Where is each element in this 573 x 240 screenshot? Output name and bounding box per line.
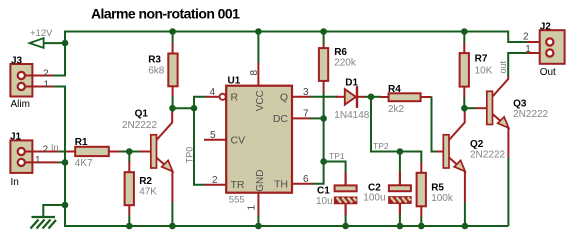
svg-text:2N2222: 2N2222 [513,109,548,120]
svg-text:VCC: VCC [255,90,266,111]
wire D1 cathode to node [365,96,381,98]
svg-text:2k2: 2k2 [388,104,405,115]
wire node to Q3 base [464,107,475,109]
node R3 Q1 collector junction [169,105,176,112]
node C2 TP2 junction [397,148,404,155]
wire pin6 riser [313,162,324,184]
svg-text:Q3: Q3 [513,98,527,109]
svg-text:2: 2 [523,31,529,42]
svg-text:J3: J3 [11,55,23,66]
node D1 R4 TP2 junction [368,94,375,101]
svg-text:2N2222: 2N2222 [470,149,505,160]
wire pin8 to rail [257,32,259,63]
svg-text:Alim: Alim [11,99,30,110]
svg-text:2: 2 [43,68,49,79]
resistor R7 [460,32,469,109]
svg-text:6: 6 [303,174,309,185]
svg-text:GND: GND [255,170,266,192]
wire TP1 to C1 [324,162,346,174]
supply symbol +12V arrow [30,38,44,48]
wire J3 pin2 to +12V [53,75,66,77]
svg-text:R7: R7 [475,54,488,65]
node R1 R2 Q1 junction [126,148,133,155]
wire R3 node to TP0 node [173,107,195,109]
wire TP0 node to pin2 [194,108,205,185]
diode D1 [336,86,366,108]
svg-text:2N2222: 2N2222 [122,120,157,131]
svg-text:7: 7 [303,109,309,120]
svg-text:C1: C1 [317,185,330,196]
svg-text:R4: R4 [388,84,401,95]
transistor Q3 [475,76,509,227]
wire pin1 to rail [257,216,259,227]
svg-text:Alarme non-rotation 001: Alarme non-rotation 001 [91,6,240,22]
svg-text:D1: D1 [345,77,358,88]
node R7 Q2 Q3 junction [461,105,468,112]
node +12V junction [62,40,69,47]
wire pin3 to D1 [310,96,338,98]
wire TP0 node to pin4 [194,97,206,109]
svg-text:CV: CV [231,134,246,146]
resistor R2 [125,152,134,227]
wire J3 pin1 to GND [53,86,66,88]
svg-text:R2: R2 [139,176,152,187]
svg-text:1: 1 [247,205,258,211]
svg-text:10K: 10K [475,66,493,77]
svg-text:R3: R3 [148,54,161,65]
resistor R6 [319,32,328,163]
svg-text:Q1: Q1 [135,109,149,120]
node TP1 junction [320,158,327,165]
svg-text:6k8: 6k8 [148,65,165,76]
svg-text:TP2: TP2 [373,141,389,151]
svg-text:555: 555 [229,195,245,206]
connector J2 [527,30,565,64]
node R3 top rail [169,28,176,35]
node C1 rail [342,223,349,230]
wire bottom GND rail [65,225,508,227]
wire R4 to Q2 base [432,97,438,152]
svg-text:In: In [11,177,19,188]
node pin1 rail [255,223,262,230]
capacitor C2 [389,152,411,227]
svg-text:2: 2 [43,144,49,155]
node pin8 rail [255,28,262,35]
svg-text:Q: Q [280,92,288,104]
wire +12V arrow stub [44,42,66,44]
wire R1 to node [121,151,141,153]
svg-text:Out: Out [540,67,556,78]
wire +12V top rail [65,31,508,33]
connector J3 [10,64,53,97]
resistor R5 [417,162,426,226]
wire pin7 to RC node [310,117,324,119]
node pin7 junction [320,115,327,122]
svg-text:DC: DC [273,113,289,125]
svg-text:TH: TH [274,179,288,191]
wire ground branch [43,205,66,217]
node GND J1 junction [62,159,69,166]
wire J1 pin1 to GND [59,161,65,163]
wire +12V vertical from rail to J3 pin2 [64,31,66,76]
node R6 top rail [320,28,327,35]
svg-text:100k: 100k [431,193,454,204]
wire J2 pin2 from rail [508,31,527,43]
node Q2 emitter rail [462,223,469,230]
svg-text:Q2: Q2 [470,139,484,150]
svg-text:TP1: TP1 [329,151,345,161]
resistor R1 [66,147,121,156]
resistor R3 [168,32,177,109]
svg-text:1: 1 [525,44,531,55]
wire GND vertical left [65,86,508,227]
svg-text:100u: 100u [363,193,385,204]
svg-text:3: 3 [303,87,309,98]
ground [31,217,57,229]
op-amp U1 555 timer [204,62,314,216]
svg-text:8: 8 [249,70,260,76]
node TP0 junction [191,105,198,112]
svg-text:10u: 10u [316,196,333,207]
svg-text:1N4148: 1N4148 [334,110,369,121]
node C2 rail [397,223,404,230]
svg-text:R5: R5 [431,183,444,194]
node Q1 emitter rail [169,223,176,230]
resistor R4 [380,93,432,101]
svg-text:R: R [231,92,239,104]
svg-text:220k: 220k [334,58,357,69]
svg-text:U1: U1 [228,75,241,86]
svg-text:2: 2 [212,175,218,186]
svg-text:5: 5 [210,130,216,141]
svg-text:In: In [51,142,59,152]
svg-text:J2: J2 [540,22,552,33]
wire J1 pin2 to R1 [59,151,67,153]
svg-text:1: 1 [44,79,50,90]
svg-text:TR: TR [231,179,245,191]
svg-text:47K: 47K [139,187,157,198]
node GND ground-branch junction [62,202,69,209]
svg-text:+12V: +12V [30,28,53,39]
wire TP2 from node to R5 [371,97,421,163]
node R7 top rail [461,28,468,35]
svg-text:out: out [498,60,508,73]
transistor Q2 [437,107,465,226]
capacitor C1 [335,173,357,227]
svg-text:TP0: TP0 [185,147,195,164]
svg-text:R1: R1 [75,137,88,148]
connector J1 [10,140,58,173]
svg-text:4K7: 4K7 [75,158,93,169]
svg-text:4: 4 [210,87,216,98]
svg-text:R6: R6 [334,47,347,58]
node R2 bottom rail [126,223,133,230]
svg-text:1: 1 [35,155,41,166]
wire J2 pin1 to Q3 collector [508,53,527,76]
svg-text:J1: J1 [10,132,22,143]
transistor Q1 [140,107,173,226]
node R5 rail [418,223,425,230]
